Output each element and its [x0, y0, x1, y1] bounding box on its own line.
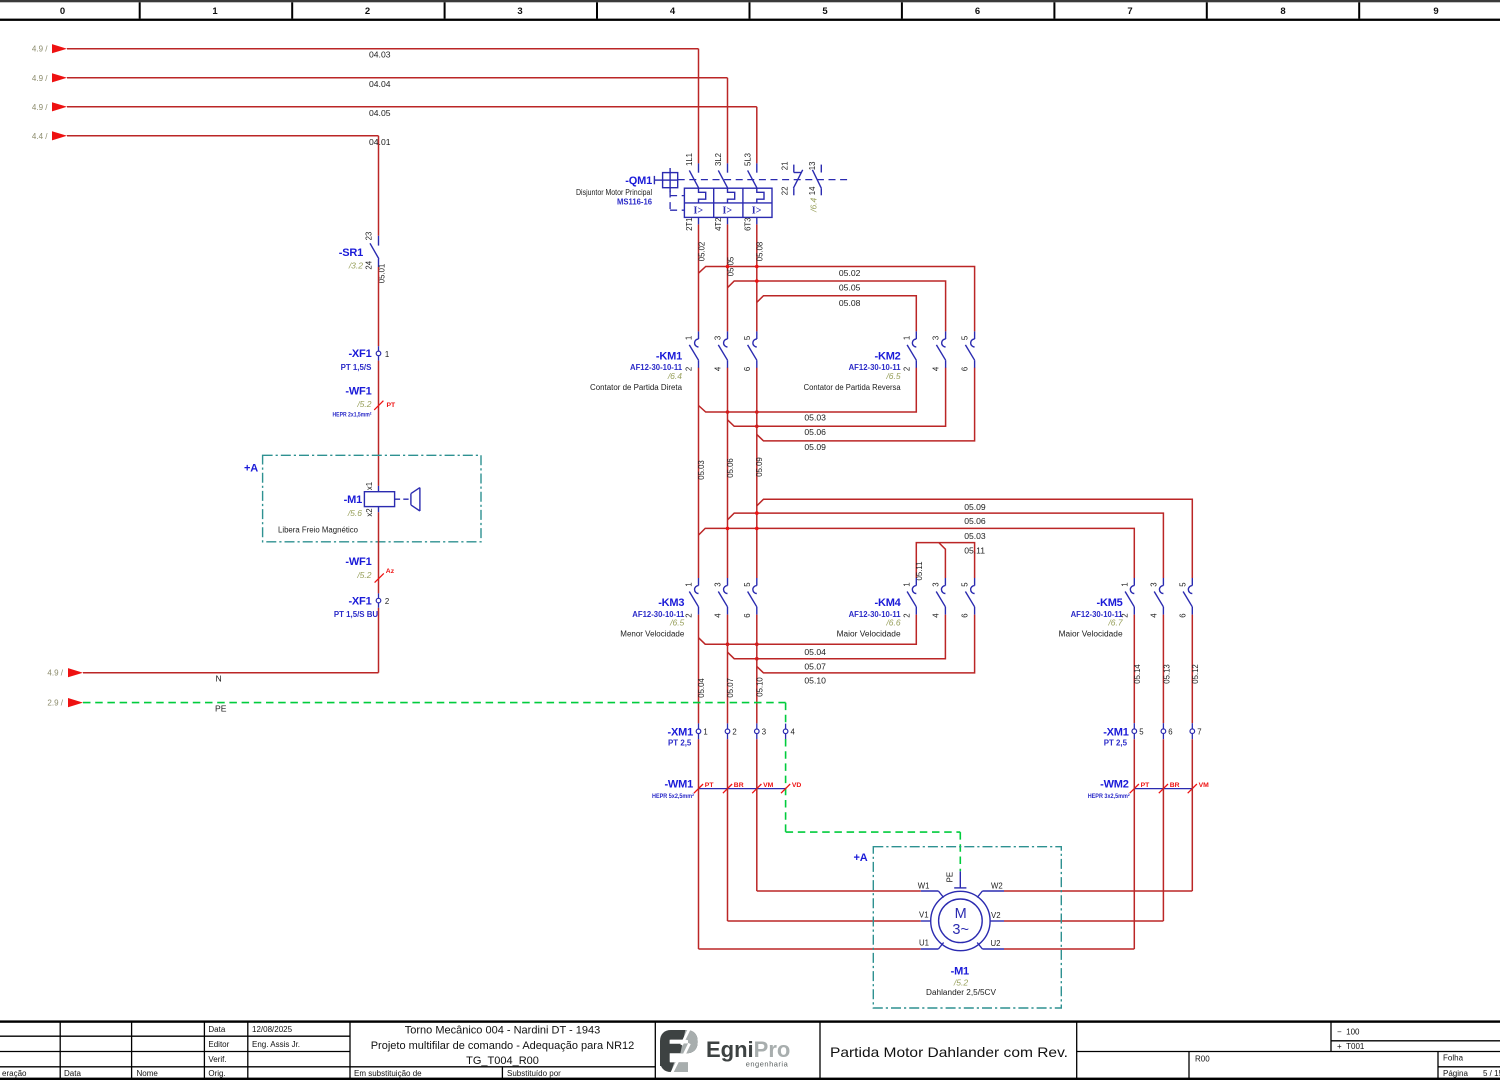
wire 04.05 [67, 106, 757, 108]
svg-text:1: 1 [703, 728, 707, 737]
svg-text:-SR1: -SR1 [339, 247, 363, 259]
svg-text:3L2: 3L2 [714, 153, 723, 166]
svg-text:/3.2: /3.2 [348, 261, 363, 271]
svg-text:04.05: 04.05 [369, 108, 391, 118]
svg-text:5: 5 [961, 335, 970, 340]
svg-text:05.09: 05.09 [755, 457, 764, 477]
svg-text:+A: +A [854, 852, 868, 864]
svg-text:05.05: 05.05 [839, 283, 861, 293]
svg-text:3: 3 [714, 582, 723, 586]
svg-text:+A: +A [244, 463, 258, 475]
wire 05.02 vertical [698, 224, 700, 331]
wire 05.05 vertical [727, 224, 729, 331]
svg-text:6: 6 [975, 6, 980, 17]
svg-text:21: 21 [780, 162, 789, 171]
svg-text:I>: I> [723, 206, 733, 217]
wire XF1 to M1 [378, 361, 380, 486]
svg-text:5: 5 [961, 582, 970, 587]
contactor KM1 pole contact 5/6 [756, 331, 758, 339]
svg-text:/6.5: /6.5 [885, 371, 900, 381]
contactor KM5 pole contact 3/4 [1162, 578, 1164, 586]
wire to motor V1 [727, 739, 729, 921]
svg-text:5: 5 [822, 6, 828, 17]
svg-text:4: 4 [932, 366, 941, 371]
svg-text:Eng. Assis Jr.: Eng. Assis Jr. [252, 1040, 300, 1049]
wire 05.09 rail [756, 368, 758, 578]
svg-text:x2: x2 [365, 508, 374, 516]
svg-text:Data: Data [208, 1025, 225, 1034]
contactor KM3 pole contact 3/4 [727, 578, 729, 586]
contactor KM4 pole contact 3/4 [944, 578, 946, 586]
svg-text:Orig.: Orig. [208, 1069, 225, 1078]
svg-text:05.09: 05.09 [804, 442, 826, 452]
svg-text:14: 14 [808, 186, 817, 195]
svg-text:Maior Velocidade: Maior Velocidade [1059, 629, 1123, 638]
svg-text:-QM1: -QM1 [625, 175, 652, 187]
wire 05.09 rail to KM5 [757, 499, 1193, 578]
svg-text:7: 7 [1197, 727, 1201, 736]
svg-text:-XM1: -XM1 [1103, 726, 1129, 738]
svg-text:4.9 /: 4.9 / [32, 74, 48, 83]
wire 05.05 rail to KM2 [728, 281, 946, 331]
svg-text:MS116-16: MS116-16 [617, 198, 653, 207]
wire 05.12 vertical [1191, 615, 1193, 724]
wire to motor U1 [698, 739, 700, 949]
svg-text:Dahlander 2,5/5CV: Dahlander 2,5/5CV [926, 988, 997, 997]
svg-text:-KM1: -KM1 [656, 351, 682, 363]
svg-text:4: 4 [714, 613, 723, 618]
svg-text:05.13: 05.13 [1162, 664, 1171, 684]
svg-text:engenharia: engenharia [746, 1060, 789, 1069]
svg-text:PT: PT [705, 782, 715, 789]
breaker QM1 thermal box [684, 188, 772, 217]
svg-text:N: N [216, 674, 222, 684]
svg-text:2T1: 2T1 [685, 217, 694, 230]
svg-text:05.03: 05.03 [697, 460, 706, 480]
contactor KM3 pole contact 1/2 [698, 578, 700, 586]
svg-text:3: 3 [517, 6, 522, 17]
svg-text:U1: U1 [919, 939, 929, 948]
svg-text:-XF1: -XF1 [348, 348, 371, 360]
svg-text:24: 24 [365, 260, 374, 269]
svg-text:-KM3: -KM3 [658, 597, 684, 609]
svg-text:05.09: 05.09 [964, 502, 986, 512]
svg-text:1: 1 [385, 350, 389, 359]
contactor KM1 pole contact 3/4 [727, 331, 729, 339]
svg-text:2: 2 [385, 597, 389, 606]
svg-text:Disjuntor Motor Principal: Disjuntor Motor Principal [576, 188, 652, 197]
svg-text:PT 2,5: PT 2,5 [668, 739, 692, 748]
svg-text:22: 22 [780, 187, 789, 196]
wire 05.13 vertical [1162, 615, 1164, 724]
svg-text:05.07: 05.07 [804, 661, 826, 671]
contactor KM1 pole contact 1/2 [698, 331, 700, 339]
svg-text:-XF1: -XF1 [348, 595, 371, 607]
svg-text:05.14: 05.14 [1133, 664, 1142, 684]
svg-text:/5.6: /5.6 [347, 508, 362, 518]
wire 04.01 [67, 135, 379, 137]
svg-text:5 / 15: 5 / 15 [1483, 1069, 1500, 1078]
svg-text:4.9 /: 4.9 / [47, 669, 63, 678]
svg-text:Editor: Editor [208, 1040, 229, 1049]
svg-text:5: 5 [1139, 727, 1144, 736]
breaker QM1 pole 2 pins 3L2/4T2 [727, 163, 729, 172]
svg-text:05.08: 05.08 [756, 242, 765, 262]
contactor KM2 pole contact 1/2 [915, 331, 917, 339]
svg-text:-WF1: -WF1 [345, 386, 371, 398]
brake symbol [395, 498, 409, 500]
svg-text:PE: PE [945, 872, 954, 882]
mounting location box +A (brake) [263, 455, 481, 542]
wire 05.02 rail to KM2 [699, 267, 975, 332]
svg-text:05.07: 05.07 [726, 678, 735, 698]
contactor KM4 pole contact 1/2 [915, 578, 917, 586]
svg-text:12/08/2025: 12/08/2025 [252, 1025, 293, 1034]
svg-text:PT: PT [1141, 782, 1151, 789]
wire 05.04 rail [698, 615, 700, 724]
svg-text:-M1: -M1 [951, 966, 969, 978]
svg-text:05.11: 05.11 [915, 562, 924, 581]
svg-text:TG_T004_R00: TG_T004_R00 [466, 1055, 539, 1067]
svg-text:05.06: 05.06 [804, 427, 826, 437]
svg-text:1: 1 [685, 582, 694, 586]
wire PE [83, 702, 786, 704]
svg-text:M: M [955, 906, 967, 922]
wire 05.06 rail to KM5 [728, 513, 1164, 578]
svg-text:2: 2 [902, 613, 911, 617]
svg-text:-WM2: -WM2 [1100, 779, 1129, 791]
svg-text:EgniPro: EgniPro [706, 1037, 790, 1062]
svg-text:05.04: 05.04 [804, 647, 826, 657]
wire 05.01 [378, 267, 380, 346]
svg-text:-KM2: -KM2 [875, 351, 901, 363]
svg-text:05.04: 05.04 [697, 678, 706, 698]
wire 05.07 rail [727, 615, 729, 724]
svg-text:0: 0 [60, 6, 65, 17]
svg-text:2: 2 [685, 367, 694, 371]
svg-text:3: 3 [932, 336, 941, 340]
svg-text:V2: V2 [991, 911, 1001, 920]
ruler bar top [0, 0, 1500, 2]
svg-text:2: 2 [902, 367, 911, 371]
contactor KM2 pole contact 3/4 [945, 331, 947, 339]
svg-text:V1: V1 [919, 910, 929, 919]
svg-text:2: 2 [685, 613, 694, 617]
svg-text:4.4 /: 4.4 / [32, 132, 48, 141]
svg-text:W1: W1 [918, 881, 930, 890]
svg-text:4: 4 [670, 6, 676, 17]
svg-text:+ T001: + T001 [1337, 1042, 1365, 1051]
svg-text:U2: U2 [991, 939, 1001, 948]
svg-text:4: 4 [791, 728, 796, 737]
contactor KM2 pole contact 5/6 [974, 331, 976, 339]
wire 04.03 [67, 48, 699, 50]
breaker QM1 aux contact 21/22 [793, 165, 795, 173]
contactor KM5 pole contact 1/2 [1133, 578, 1135, 586]
svg-text:/5.2: /5.2 [953, 978, 968, 988]
svg-text:/5.2: /5.2 [356, 399, 371, 409]
wire to motor W2 [1191, 739, 1193, 891]
svg-text:6: 6 [961, 613, 970, 617]
svg-text:05.03: 05.03 [964, 531, 986, 541]
svg-text:VM: VM [1199, 782, 1210, 789]
contactor KM3 pole contact 5/6 [756, 578, 758, 586]
svg-text:HEPR 5x2,5mm²: HEPR 5x2,5mm² [652, 793, 695, 800]
svg-text:4: 4 [931, 613, 940, 618]
svg-text:I>: I> [694, 206, 704, 217]
svg-text:5: 5 [743, 582, 752, 587]
svg-text:7: 7 [1127, 6, 1132, 17]
wire to motor W1 [756, 739, 758, 891]
svg-text:5: 5 [1178, 582, 1187, 587]
wire 05.08 rail to KM2 [757, 296, 917, 332]
svg-text:PT: PT [387, 402, 397, 409]
svg-text:/6.4: /6.4 [667, 371, 682, 381]
wire 05.03 rail to KM5 [699, 528, 1135, 578]
svg-text:Projeto multifilar de comando: Projeto multifilar de comando - Adequaçã… [371, 1040, 635, 1052]
svg-text:BR: BR [734, 782, 744, 789]
svg-text:04.04: 04.04 [369, 79, 391, 89]
svg-text:/6.7: /6.7 [1107, 618, 1122, 628]
svg-text:05.11: 05.11 [964, 545, 985, 555]
svg-text:PT 1,5/S BU: PT 1,5/S BU [334, 610, 379, 619]
svg-text:Az: Az [386, 568, 395, 575]
svg-text:2.9 /: 2.9 / [47, 699, 63, 708]
wire 05.06 rail [727, 368, 729, 578]
svg-text:6: 6 [743, 613, 752, 617]
svg-text:8: 8 [1280, 6, 1285, 17]
wire 04.04 [67, 77, 728, 79]
svg-text:1: 1 [1120, 582, 1129, 586]
svg-text:05.06: 05.06 [726, 458, 735, 478]
svg-text:05.06: 05.06 [964, 516, 986, 526]
svg-text:VM: VM [763, 782, 774, 789]
svg-text:3~: 3~ [952, 922, 969, 938]
svg-text:/6.4: /6.4 [808, 197, 818, 212]
svg-text:05.03: 05.03 [804, 413, 826, 423]
svg-text:VD: VD [792, 782, 802, 789]
svg-text:3: 3 [1149, 582, 1158, 586]
svg-text:05.10: 05.10 [756, 677, 765, 697]
svg-text:-WM1: -WM1 [664, 779, 693, 791]
svg-text:-XM1: -XM1 [668, 726, 694, 738]
svg-text:PT 2,5: PT 2,5 [1104, 739, 1128, 748]
svg-text:/5.2: /5.2 [356, 570, 371, 580]
svg-text:04.03: 04.03 [369, 50, 391, 60]
svg-text:1: 1 [902, 336, 911, 340]
breaker QM1 aux contact 13/14 [820, 165, 822, 173]
wire 05.11 bridge KM4 [916, 543, 974, 578]
svg-text:Verif.: Verif. [208, 1055, 226, 1064]
wire 05.10 rail [756, 615, 758, 724]
svg-text:2: 2 [1120, 613, 1129, 617]
svg-text:2: 2 [365, 6, 370, 17]
svg-text:HEPR 3x2,5mm²: HEPR 3x2,5mm² [1088, 793, 1131, 800]
svg-text:/6.6: /6.6 [885, 618, 900, 628]
svg-text:5L3: 5L3 [744, 153, 753, 166]
svg-text:/6.5: /6.5 [669, 618, 684, 628]
svg-text:Contator de Partida Direta: Contator de Partida Direta [590, 383, 683, 392]
svg-text:x1: x1 [365, 482, 374, 490]
svg-text:Menor Velocidade: Menor Velocidade [620, 629, 684, 638]
svg-text:3: 3 [714, 336, 723, 340]
svg-text:PT 1,5/S: PT 1,5/S [341, 363, 372, 372]
svg-text:05.02: 05.02 [839, 268, 861, 278]
svg-text:05.08: 05.08 [839, 298, 861, 308]
svg-text:Folha: Folha [1443, 1054, 1464, 1063]
svg-text:W2: W2 [991, 881, 1003, 890]
svg-text:I>: I> [752, 206, 762, 217]
svg-text:4T2: 4T2 [714, 217, 723, 230]
svg-text:6: 6 [1168, 727, 1172, 736]
svg-text:4: 4 [714, 366, 723, 371]
svg-text:− 100: − 100 [1337, 1028, 1360, 1037]
svg-text:1: 1 [685, 336, 694, 340]
svg-text:05.12: 05.12 [1191, 664, 1200, 684]
svg-text:1: 1 [902, 582, 911, 586]
svg-text:3: 3 [762, 728, 766, 737]
svg-text:Contator de Partida Reversa: Contator de Partida Reversa [804, 383, 902, 392]
breaker QM1 pole 1 pins 1L1/2T1 [698, 163, 700, 172]
svg-text:HEPR 2x1,5mm²: HEPR 2x1,5mm² [333, 412, 373, 419]
svg-text:6: 6 [743, 367, 752, 371]
breaker QM1 pole 3 pins 5L3/6T3 [756, 163, 758, 172]
PE terminal at motor [959, 871, 961, 887]
svg-text:05.02: 05.02 [697, 242, 706, 262]
svg-text:Maior Velocidade: Maior Velocidade [837, 629, 901, 638]
wire to motor V2 [1162, 739, 1164, 921]
wire 05.03 rail [698, 368, 700, 578]
svg-text:6: 6 [961, 367, 970, 371]
svg-text:BR: BR [1170, 782, 1180, 789]
svg-text:R00: R00 [1195, 1054, 1210, 1063]
wire M1 to XF1 pin 2 [378, 512, 380, 593]
wire N return [378, 608, 380, 673]
svg-text:Nome: Nome [137, 1069, 159, 1078]
svg-text:-M1: -M1 [344, 494, 362, 506]
svg-text:Em substituição de: Em substituição de [354, 1069, 422, 1078]
wire 05.08 vertical [756, 224, 758, 331]
svg-text:2: 2 [732, 728, 736, 737]
svg-text:5: 5 [743, 335, 752, 340]
svg-text:9: 9 [1433, 6, 1438, 17]
mounting location box +A (motor) [873, 847, 1061, 1008]
svg-text:Libera Freio Magnético: Libera Freio Magnético [278, 526, 359, 535]
svg-text:1L1: 1L1 [685, 153, 694, 166]
svg-text:Data: Data [64, 1069, 81, 1078]
svg-text:4.9 /: 4.9 / [32, 103, 48, 112]
breaker QM1 operator and linkage [663, 173, 678, 188]
svg-text:-KM5: -KM5 [1097, 597, 1123, 609]
svg-text:1: 1 [212, 6, 218, 17]
title block frame [0, 1020, 1500, 1022]
svg-text:6T3: 6T3 [744, 217, 753, 230]
svg-text:6: 6 [1178, 613, 1187, 617]
svg-text:-KM4: -KM4 [875, 597, 902, 609]
svg-text:13: 13 [808, 162, 817, 171]
svg-text:4.9 /: 4.9 / [32, 45, 48, 54]
svg-text:Torno Mecânico 004 - Nardini D: Torno Mecânico 004 - Nardini DT - 1943 [405, 1024, 600, 1036]
wire 05.14 vertical [1133, 615, 1135, 724]
svg-text:04.01: 04.01 [369, 137, 391, 147]
svg-text:05.10: 05.10 [804, 676, 826, 686]
contactor KM5 pole contact 5/6 [1191, 578, 1193, 586]
svg-text:4: 4 [1149, 613, 1158, 618]
svg-text:PE: PE [215, 704, 227, 714]
svg-text:Página: Página [1443, 1069, 1468, 1078]
svg-text:-WF1: -WF1 [345, 556, 371, 568]
svg-text:Substituído por: Substituído por [507, 1069, 561, 1078]
svg-text:eração: eração [2, 1069, 27, 1078]
svg-text:3: 3 [931, 582, 940, 586]
contactor KM4 pole contact 5/6 [974, 578, 976, 586]
svg-text:23: 23 [365, 232, 374, 241]
motor M1 [931, 891, 990, 950]
svg-text:Partida Motor Dahlander com Re: Partida Motor Dahlander com Rev. [830, 1044, 1068, 1060]
wire to motor U2 [1133, 739, 1135, 949]
